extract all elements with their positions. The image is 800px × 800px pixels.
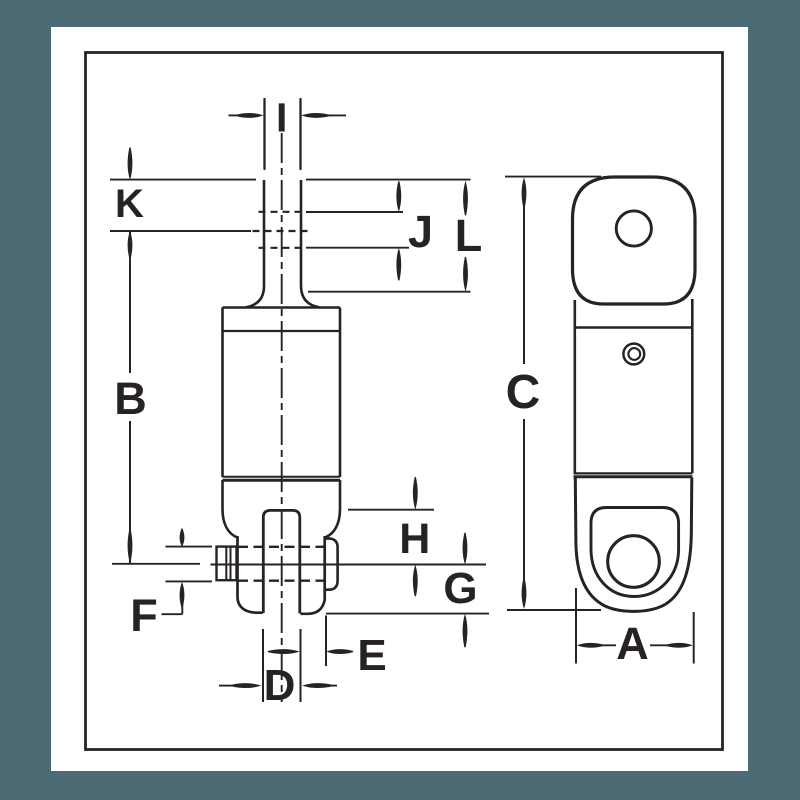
part centerline vertical (left view) xyxy=(281,133,283,702)
D right extension line xyxy=(300,629,302,702)
svg-text:L: L xyxy=(455,210,483,261)
A left extension line xyxy=(575,588,577,664)
B dimension line lower segment xyxy=(129,421,131,563)
K top extension line xyxy=(110,179,256,181)
C top extension line xyxy=(505,176,601,178)
pin head rectangle xyxy=(217,547,237,581)
dim K bottom arrow / B top arrow xyxy=(128,231,133,259)
side view eye outline xyxy=(573,177,696,304)
C dimension line upper xyxy=(523,195,525,364)
side view eye hole xyxy=(616,211,651,246)
A right extension line xyxy=(693,612,695,664)
svg-text:C: C xyxy=(506,366,541,419)
inner tongue outline xyxy=(263,510,300,613)
dim A left arrow xyxy=(577,643,604,648)
svg-text:J: J xyxy=(408,206,433,257)
body left side xyxy=(221,308,224,478)
dim E right arrow xyxy=(326,649,353,654)
pin end cap xyxy=(325,539,338,590)
J top extension line xyxy=(306,211,403,213)
L bottom extension line xyxy=(308,291,471,293)
dim I dimension line left with arrow xyxy=(229,114,242,116)
dim F bottom arrow xyxy=(180,582,185,608)
pin bottom hidden edge xyxy=(238,580,324,582)
C dimension line lower xyxy=(523,419,525,592)
dim I dimension line right with arrow xyxy=(327,114,346,116)
border frame xyxy=(86,53,723,750)
A dimension line left segment xyxy=(598,644,616,646)
dim D right arrow xyxy=(302,683,333,688)
dim C bottom arrow xyxy=(522,578,527,609)
side view body right side xyxy=(691,299,694,473)
svg-text:D: D xyxy=(264,661,296,710)
body bottom joint line upper xyxy=(223,476,341,478)
dim F top arrow xyxy=(180,528,185,547)
side view eye base line xyxy=(575,326,692,328)
dim D right tail xyxy=(330,685,337,687)
dim D left tail xyxy=(219,685,232,687)
body collar line xyxy=(223,330,341,332)
E right extension line xyxy=(325,616,327,667)
side view seat inner outline xyxy=(591,508,679,597)
F leader vertical xyxy=(181,595,183,614)
K bottom extension line xyxy=(110,230,251,232)
body-to-clevis fillet right xyxy=(325,480,340,538)
svg-text:H: H xyxy=(399,515,430,563)
svg-text:I: I xyxy=(276,95,287,141)
thread groove ticks row 2 xyxy=(253,230,311,232)
body top edge xyxy=(223,306,341,309)
side view rivet ring inner xyxy=(628,348,640,360)
dim C top arrow xyxy=(522,177,527,208)
F leader horizontal xyxy=(162,613,183,615)
dim L bottom arrow xyxy=(463,257,468,292)
body-to-clevis fillet left xyxy=(223,480,238,538)
side view rivet ring outer xyxy=(623,344,644,365)
pin head inner line 2 xyxy=(230,547,232,580)
stem break extension right xyxy=(299,99,301,169)
side view bottom lobe outer outline xyxy=(575,478,692,612)
stem right outline with flare xyxy=(301,180,320,308)
dim D left arrow xyxy=(230,683,261,688)
C bottom extension line xyxy=(507,609,601,611)
svg-text:G: G xyxy=(443,564,477,613)
dim A right arrow xyxy=(666,643,693,648)
J bottom extension line xyxy=(306,247,409,249)
dim B bottom arrow xyxy=(128,529,133,564)
stem left outline with flare xyxy=(245,180,264,308)
pin top hidden edge xyxy=(238,546,324,548)
dim E left arrow xyxy=(268,649,300,654)
L top extension line xyxy=(306,179,471,181)
D left extension line xyxy=(262,629,264,702)
body bottom joint line lower xyxy=(223,479,341,482)
thread groove ticks row 1 xyxy=(259,211,304,213)
dim H top arrow xyxy=(413,477,418,510)
F bottom extension line xyxy=(166,580,213,582)
clevis left side and bottom corner xyxy=(238,536,264,613)
side view bottom hole circle xyxy=(608,536,660,588)
clevis right side and bottom corner xyxy=(301,536,325,614)
H top extension line xyxy=(348,509,434,511)
side view body bottom joint lower xyxy=(574,475,693,478)
svg-text:E: E xyxy=(357,631,386,680)
pin centerline horizontal xyxy=(211,564,487,566)
A dimension line right segment xyxy=(650,644,670,646)
dim G top arrow xyxy=(463,533,468,565)
B extension line bottom xyxy=(112,563,200,565)
stem break extension left xyxy=(263,99,265,169)
dim J top arrow xyxy=(396,181,401,212)
F top extension line xyxy=(166,546,213,548)
side view body left side xyxy=(573,300,576,473)
svg-text:B: B xyxy=(114,373,147,424)
body right side xyxy=(339,308,342,478)
side view body bottom joint upper xyxy=(574,472,693,474)
thread groove ticks row 3 xyxy=(259,247,304,249)
svg-text:A: A xyxy=(616,618,649,669)
B dimension line upper segment xyxy=(129,232,131,373)
svg-text:K: K xyxy=(115,182,144,226)
G bottom extension line xyxy=(326,613,489,615)
dim K top arrow xyxy=(128,147,133,180)
pin head inner line 1 xyxy=(225,547,227,580)
dim H bottom arrow xyxy=(413,565,418,597)
dim J bottom arrow xyxy=(396,248,401,281)
svg-text:F: F xyxy=(130,590,158,641)
dim L top arrow xyxy=(463,181,468,216)
dim G bottom arrow xyxy=(463,614,468,648)
